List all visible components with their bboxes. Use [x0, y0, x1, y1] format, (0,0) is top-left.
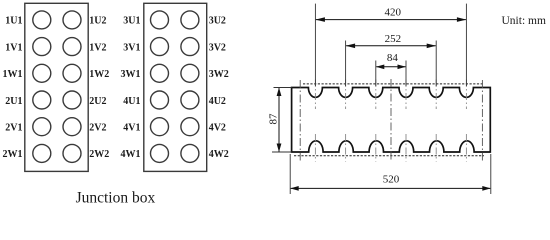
svg-text:Unit: mm: Unit: mm [502, 15, 546, 27]
svg-text:2W1: 2W1 [3, 149, 23, 160]
svg-text:2V2: 2V2 [89, 123, 106, 134]
svg-text:2U2: 2U2 [89, 96, 106, 107]
svg-text:87: 87 [268, 113, 280, 125]
slot centre lines top [315, 80, 466, 110]
svg-text:420: 420 [384, 7, 401, 19]
dimension 252 line with arrows [346, 45, 436, 47]
terminal labels left of box 2 [121, 16, 141, 161]
svg-text:84: 84 [387, 52, 399, 64]
terminal labels right of box 2 [209, 16, 229, 161]
svg-text:4W2: 4W2 [209, 149, 229, 160]
hidden edge dashed line bottom [294, 155, 484, 157]
terminal labels right of box 1 [89, 16, 109, 161]
dimension 520 line with arrows [291, 187, 491, 189]
svg-text:4U2: 4U2 [209, 96, 226, 107]
svg-text:2W2: 2W2 [89, 149, 109, 160]
dimension 420 line with arrows [316, 19, 466, 21]
svg-text:1V2: 1V2 [89, 42, 106, 53]
svg-text:3U1: 3U1 [123, 16, 140, 27]
svg-text:1V1: 1V1 [5, 42, 22, 53]
svg-text:1U2: 1U2 [89, 16, 106, 27]
dimension 87 extension lines [274, 87, 292, 89]
svg-text:4V2: 4V2 [209, 123, 226, 134]
svg-text:Junction box: Junction box [76, 189, 156, 206]
junction box 2 outline [144, 3, 207, 171]
svg-text:1U1: 1U1 [5, 16, 22, 27]
svg-text:520: 520 [383, 173, 400, 185]
svg-text:1W1: 1W1 [3, 69, 23, 80]
terminal circles box 1 [33, 11, 81, 163]
dimension 84 line with arrows [376, 66, 405, 68]
slot centre lines bottom [315, 134, 466, 162]
terminal circles box 2 [151, 11, 199, 163]
svg-text:252: 252 [385, 33, 402, 45]
svg-text:4U1: 4U1 [123, 96, 140, 107]
svg-text:4V1: 4V1 [123, 123, 140, 134]
stator body outline with slots [292, 88, 491, 153]
svg-text:2U1: 2U1 [5, 96, 22, 107]
svg-text:1W2: 1W2 [89, 69, 109, 80]
junction box 1 outline [25, 3, 88, 171]
svg-text:3W2: 3W2 [209, 69, 229, 80]
right end centre line [481, 80, 483, 161]
dimension 84 extension lines [375, 61, 377, 87]
central axis centre line [390, 79, 392, 162]
dimension 420 extension lines [314, 4, 316, 87]
svg-text:3V1: 3V1 [123, 42, 140, 53]
svg-text:3W1: 3W1 [121, 69, 141, 80]
dimension 87 line with arrows [278, 88, 280, 152]
svg-text:3V2: 3V2 [209, 42, 226, 53]
svg-text:2V1: 2V1 [5, 123, 22, 134]
svg-text:3U2: 3U2 [209, 16, 226, 27]
left end centre line [299, 80, 301, 161]
dimension 520 extension lines [289, 154, 291, 194]
terminal labels left of box 1 [3, 16, 23, 161]
svg-text:4W1: 4W1 [121, 149, 141, 160]
dimension 252 extension lines [345, 41, 347, 87]
hidden edge dashed line top [303, 83, 483, 85]
